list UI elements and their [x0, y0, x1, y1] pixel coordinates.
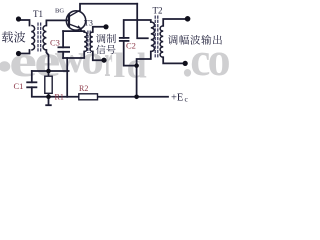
- capacitor C1: [26, 82, 37, 87]
- wire emitter to T3 and C3: [81, 28, 84, 32]
- capacitor C2: [119, 38, 129, 41]
- svg-text:T1: T1: [33, 9, 43, 19]
- wire T3 primary bottom joining C3 bottom: [63, 52, 84, 59]
- terminal dot carrier bottom: [16, 51, 21, 56]
- transistor BG circle: [66, 11, 85, 30]
- label 信号: [96, 45, 105, 54]
- wire C2 bottom to feed node: [124, 41, 137, 66]
- terminal dot output bottom: [183, 61, 188, 66]
- transformer T3 secondary winding: [90, 32, 93, 52]
- wire carrier input top: [19, 20, 30, 26]
- ground stub: [48, 97, 50, 105]
- wire collector to top rail: [80, 4, 137, 10]
- wire collector tap: [137, 4, 148, 39]
- wire R1 leads: [48, 71, 50, 76]
- transformer T2 primary winding: [151, 22, 155, 52]
- resistor R2: [79, 94, 98, 100]
- junction node R1 bottom rail: [46, 95, 51, 100]
- ground bar: [45, 104, 51, 106]
- wire supply feed riser: [137, 52, 151, 97]
- terminal dot output top: [185, 16, 191, 22]
- svg-text:o: o: [208, 33, 230, 86]
- svg-text:C1: C1: [14, 81, 24, 91]
- transformer T3 core: [88, 31, 90, 54]
- wire T3 secondary top to terminal: [93, 27, 106, 32]
- wire C3 bottom lead: [62, 52, 64, 58]
- label 调幅波输出: [168, 35, 178, 45]
- junction node tank bottom: [134, 63, 139, 68]
- transformer T1 primary winding: [31, 26, 34, 51]
- svg-text:+E: +E: [171, 93, 183, 104]
- wire C1 bottom lead and bottom rail: [32, 87, 168, 97]
- resistor R1: [45, 76, 52, 93]
- svg-text:T2: T2: [153, 6, 163, 16]
- terminal dot modulation top: [103, 24, 108, 29]
- transformer T2 secondary winding: [160, 26, 163, 57]
- svg-text:R1: R1: [55, 93, 64, 102]
- label 载波: [2, 31, 13, 42]
- wire T3 secondary bottom to terminal: [93, 52, 104, 61]
- wire C1 top lead: [31, 71, 33, 82]
- wire base: [46, 20, 69, 25]
- watermark: [0, 33, 231, 86]
- transistor collector lead: [69, 10, 80, 16]
- wire T2 secondary top to output terminal: [163, 19, 187, 26]
- wire riser to bottom rail: [66, 58, 68, 97]
- terminal dot carrier top: [16, 16, 21, 21]
- transformer T1 secondary winding: [43, 26, 46, 51]
- junction node rail feed: [134, 95, 139, 100]
- transistor emitter lead with arrow: [69, 24, 81, 28]
- transistor base bar: [68, 14, 70, 28]
- junction node bias: [46, 69, 51, 74]
- wire T2 secondary bottom to output terminal: [163, 57, 185, 63]
- wire bias node horizontal: [32, 70, 69, 72]
- svg-text:T3: T3: [84, 19, 93, 28]
- svg-text:c: c: [185, 95, 189, 104]
- wire C2 top to tank top: [124, 20, 151, 38]
- wire carrier input bottom: [19, 50, 30, 54]
- transformer T2 core: [155, 16, 158, 59]
- svg-text:C2: C2: [126, 41, 136, 51]
- svg-text:C3: C3: [50, 38, 60, 48]
- wire C3 top lead: [62, 31, 64, 47]
- capacitor C3: [58, 47, 71, 52]
- svg-text:BG: BG: [55, 8, 64, 15]
- terminal dot modulation bottom: [101, 58, 106, 63]
- svg-text:R2: R2: [79, 84, 88, 93]
- wire T1 secondary bottom lead: [46, 50, 48, 71]
- label 调制: [96, 34, 105, 43]
- transformer T3 primary winding: [84, 32, 87, 52]
- transformer T1 core: [38, 23, 41, 52]
